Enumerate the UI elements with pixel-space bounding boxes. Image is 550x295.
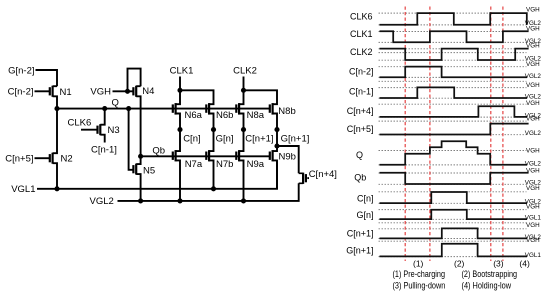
junction node Qb at N4 source / N5 drain [138,154,143,159]
svg-text:VGL1: VGL1 [525,215,542,222]
node Qb line [141,155,270,157]
wire M10 gate lead C[n+4] [307,177,309,179]
wire N5 drain to Qb [136,156,140,164]
wire CLK2 branch to N8a N8b drains [239,90,277,104]
svg-text:(2) Bootstrapping: (2) Bootstrapping [462,269,518,279]
net VGL1 line [37,161,277,189]
svg-text:(3): (3) [493,259,504,269]
svg-text:VGH: VGH [526,185,540,192]
net VGL2 line [118,183,299,201]
svg-text:N5: N5 [143,165,155,176]
svg-text:VGH: VGH [526,167,540,174]
junction N7b source on VGL1 [211,186,216,191]
svg-text:N6a: N6a [185,110,203,121]
svg-text:C[n-2]: C[n-2] [349,66,374,76]
transistor N2 [50,153,53,164]
junction N5 gate tap on node Q [126,106,131,111]
waveform CLK2 [380,49,529,60]
svg-text:N8a: N8a [247,110,265,121]
junction node G[n] output [211,127,216,132]
wire C[n-2] to N1 gate [35,90,50,92]
wire C[n+5] to N2 gate [35,157,50,159]
wire N2 source to VGL1 [53,163,57,189]
svg-text:(1): (1) [413,259,424,269]
svg-text:N4: N4 [142,86,154,97]
waveform CLK1 [380,31,529,42]
transistor N6a [173,103,176,115]
wire CLK1 drop [179,77,181,91]
svg-text:C[n-1]: C[n-1] [349,87,374,97]
svg-text:C[n+5]: C[n+5] [347,124,374,134]
svg-text:VGL2: VGL2 [525,73,542,80]
transistor M10 (G[n+1] hold-down, gate C[n+4]) stubs [299,173,303,183]
svg-text:G[n+1]: G[n+1] [346,245,373,255]
svg-text:VGH: VGH [90,87,111,98]
svg-text:VGH: VGH [526,222,540,229]
legend [393,269,518,291]
wire N2 drain from Q rail [53,109,57,154]
transistor N5 [133,164,136,175]
transistor N3 [98,124,101,135]
svg-text:Qb: Qb [152,146,165,157]
transistor N7a [173,150,176,161]
waveform Q [380,141,528,164]
svg-text:VGH: VGH [526,6,540,13]
svg-text:N1: N1 [60,87,72,98]
waveform C[n-2] [380,67,528,78]
svg-text:N2: N2 [61,154,73,165]
svg-text:G[n]: G[n] [356,210,373,220]
transistor N9b [270,150,273,161]
svg-text:C[n+4]: C[n+4] [309,169,337,180]
transistor N7b [206,150,209,161]
svg-text:(2): (2) [454,259,465,269]
svg-text:N7b: N7b [216,159,233,170]
node Q line [57,108,270,110]
svg-text:Q: Q [356,150,363,160]
svg-text:VGH: VGH [526,237,540,244]
svg-text:Qb: Qb [354,172,366,182]
phase labels [413,259,530,269]
svg-text:VGH: VGH [526,26,540,33]
svg-text:CLK2: CLK2 [233,66,257,77]
waveform C[n+1] [380,228,528,238]
svg-text:C[n+1]: C[n+1] [245,133,273,144]
svg-text:G[n]: G[n] [216,133,234,144]
junction CLK1 branch [177,88,182,93]
wire G[n+1] branch to M10 drain [277,146,299,173]
junction N3 drain on node Q [102,106,107,111]
junction node C[n] output [177,127,182,132]
red dashed phase boundary lines [405,7,503,262]
wire Q to N5 gate [129,109,134,170]
wire N3 source to C[n-1] [100,135,104,143]
svg-text:VGH: VGH [526,116,540,123]
waveform G[n] [380,210,528,219]
svg-text:CLK1: CLK1 [350,29,373,39]
svg-text:G[n-2]: G[n-2] [8,65,34,76]
junction node C[n+1] output [241,127,246,132]
junction N1 source on node Q [54,106,59,111]
svg-text:VGL2: VGL2 [90,196,114,207]
svg-text:N8b: N8b [278,106,295,117]
svg-text:CLK1: CLK1 [170,66,194,77]
wire VGH to N4 gate [113,90,134,92]
transistor N1 [50,86,53,97]
svg-text:N7a: N7a [185,159,203,170]
svg-text:VGL2: VGL2 [525,130,542,137]
svg-text:N9b: N9b [279,151,296,162]
junction N2 source on VGL1 [54,186,59,191]
waveforms [380,13,529,256]
wire C[n+1] output column [239,114,243,201]
svg-text:VGH: VGH [526,147,540,154]
svg-text:VGH: VGH [526,203,540,210]
svg-text:N6b: N6b [216,110,233,121]
right level labels [525,6,542,258]
junction N9a source on VGL2 [241,198,246,203]
svg-text:Q: Q [112,97,119,108]
wire N3 drain to Q [100,109,104,125]
svg-text:VGH: VGH [526,100,540,107]
wire N1 source to Q node [53,86,57,108]
transistor N9a [236,150,239,161]
svg-text:C[n]: C[n] [357,193,374,203]
waveform CLK6 [380,13,527,25]
gray dotted level lines [379,13,527,257]
wire N4 diode loop gate-drain [128,69,141,92]
svg-text:VGH: VGH [526,42,540,49]
svg-text:CLK6: CLK6 [350,11,373,21]
svg-text:C[n-1]: C[n-1] [91,145,117,156]
wire G[n] output column [209,114,213,189]
transistor M10 bars [303,173,306,184]
svg-text:C[n-2]: C[n-2] [8,87,34,98]
svg-text:CLK6: CLK6 [68,118,92,129]
waveform C[n] [380,192,528,203]
svg-text:CLK2: CLK2 [350,47,373,57]
wire C[n] output column [176,114,180,201]
timing row labels [346,11,373,255]
waveform G[n+1] [380,244,528,257]
wire N5 source to VGL2 [136,174,140,201]
wire G[n+1] output column [273,114,277,189]
wire CLK2 drop [243,77,245,91]
junction CLK2 branch [241,88,246,93]
svg-text:VGH: VGH [526,61,540,68]
svg-text:(1) Pre-charging: (1) Pre-charging [393,269,446,279]
wire CLK6 to N3 gate [81,129,98,131]
svg-text:N3: N3 [108,125,120,136]
junction N7a source on VGL2 [177,198,182,203]
transistor N6b [206,103,209,115]
svg-text:VGH: VGH [526,82,540,89]
svg-text:N9a: N9a [247,159,265,170]
svg-text:(3) Pulling-down: (3) Pulling-down [393,281,446,291]
svg-text:VGL1: VGL1 [11,184,35,195]
waveform Qb [380,173,529,184]
transistor N4 [133,86,136,97]
wire CLK1 branch to N6a N6b drains [176,90,214,104]
waveform C[n+5] [380,124,529,135]
waveform C[n+4] [380,106,528,117]
wire G[n-2] to N1 drain [36,70,58,86]
junction G[n+1] branch to M10 drain [274,143,279,148]
svg-text:(4): (4) [519,259,530,269]
junction node G[n+1] output [274,127,279,132]
waveform C[n-1] [380,87,528,98]
svg-text:C[n+1]: C[n+1] [347,229,374,239]
svg-text:G[n+1]: G[n+1] [281,133,310,144]
svg-text:C[n]: C[n] [183,133,200,144]
wire N4 source to Qb node [136,96,140,156]
junction N4 gate-drain tie on VGH wire [125,89,130,94]
svg-text:(4) Holding-low: (4) Holding-low [462,281,512,291]
svg-text:C[n+5]: C[n+5] [5,154,33,165]
transistor N8a [236,103,239,115]
junction N5 source on VGL2 [138,198,143,203]
transistor N8b [270,103,273,115]
svg-text:C[n+4]: C[n+4] [347,106,374,116]
